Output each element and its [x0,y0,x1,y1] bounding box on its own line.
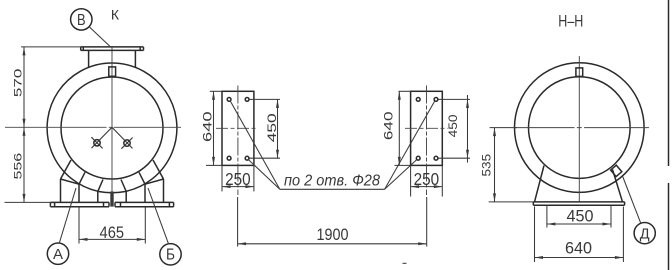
svg-text:А: А [53,246,63,263]
left plate holes [227,98,249,161]
svg-text:250: 250 [414,169,440,189]
lower-right stub [611,165,622,176]
svg-text:535: 535 [479,154,493,177]
dim 535 extension bottom [489,201,534,203]
dim 450 extension lines [546,205,548,227]
saddle left chord [61,179,80,184]
svg-text:556: 556 [12,153,24,180]
dim 465 extension lines [78,208,80,244]
dim line 640 left plate [212,91,215,165]
nozzle neck left line [88,50,90,68]
center box right edge [125,191,127,202]
saddle right divider [139,172,145,184]
dim 640 extension lines [534,207,536,263]
vessel inner circle [529,77,631,179]
dim line 450 [547,223,611,226]
stray tick [403,262,407,264]
pedestal right slant [613,170,623,202]
right plate holes [416,98,438,161]
label circle B2 [148,188,181,265]
hole leader right plate top [385,101,435,190]
vessel inner circle [61,77,163,179]
svg-text:К: К [111,7,120,23]
right plate centerlines [426,86,428,196]
label circle A [47,188,76,264]
svg-text:1900: 1900 [317,226,349,244]
svg-text:Б: Б [166,247,175,264]
saddle left end edge [61,160,72,179]
right position mark crossed circle [112,127,133,148]
dim 450 left plate extensions [250,98,281,100]
dim 535 extension top [490,127,517,129]
svg-text:450: 450 [265,113,279,143]
dim line 450 left plate [276,99,279,158]
hole leader left plate bottom [248,159,280,189]
label circle B [71,9,111,47]
dim line 535 [493,128,496,202]
left plate bottom extension [206,164,222,166]
dim line 450 right plate [466,95,469,163]
note underline [280,188,385,190]
right plate bottom extension [395,164,411,166]
sheet frame right edge [668,0,670,270]
svg-text:450: 450 [446,114,460,138]
center box left edge [97,191,99,202]
hole leader right plate bottom [385,159,418,189]
left leg outer edge [60,179,62,202]
top fitting rect [109,67,116,76]
hole leader left plate top [230,101,280,190]
dim line 465 [79,238,145,241]
left plate top extension [210,90,222,92]
svg-text:640: 640 [201,111,215,142]
svg-text:по 2 отв. Ф28: по 2 отв. Ф28 [284,172,380,189]
saddle right chord [145,179,164,184]
label circle D [623,176,656,244]
svg-text:570: 570 [12,69,24,98]
left plate [222,91,254,165]
vertical centerline [111,47,113,191]
right base plate [115,202,174,206]
dim 1900 extension lines [237,197,239,247]
center box top line [98,191,126,192]
saddle left divider [79,172,85,184]
dim line 250 right plate [411,185,443,188]
horizontal centerline [514,127,649,129]
svg-text:250: 250 [225,169,251,189]
left leg inner edge [78,184,80,202]
dim line 640 [535,256,624,259]
svg-text:В: В [77,12,86,29]
dim line 250 left plate [222,185,254,188]
saddle right end edge [153,160,164,179]
top flange K [81,47,144,51]
vessel outer circle [515,63,645,193]
dim 570/556 extension bottom [5,201,51,203]
left base plate [50,202,109,206]
dim line 640 right plate [398,91,401,165]
right leg inner edge [144,184,146,202]
base plate [533,202,624,205]
dim 570/556 extension top [21,46,81,48]
dim line 570/556 [23,47,26,203]
pedestal left slant [535,166,545,202]
svg-text:Н–Н: Н–Н [558,13,583,31]
svg-text:450: 450 [567,208,594,226]
center box left slant [98,180,103,192]
svg-text:465: 465 [100,223,125,242]
vessel outer circle [47,63,177,191]
right leg outer edge [163,179,165,202]
top fitting rect [576,68,583,77]
svg-text:Д: Д [640,226,650,242]
right plate top extension [399,90,411,92]
left position mark crossed circle [91,127,112,148]
right plate [411,91,443,165]
dim 250 left plate extensions [221,165,223,191]
left plate centerlines [237,86,239,196]
center box right slant [121,180,126,192]
dim line 1900 [238,242,427,245]
dim 450 right plate extensions [439,98,471,100]
svg-text:640: 640 [565,240,592,258]
horizontal centerline [5,126,181,128]
dim 250 right plate extensions [410,165,412,196]
nozzle neck right line [134,50,136,68]
center bar [110,191,113,206]
vertical centerline [578,56,580,202]
svg-text:640: 640 [382,111,396,140]
